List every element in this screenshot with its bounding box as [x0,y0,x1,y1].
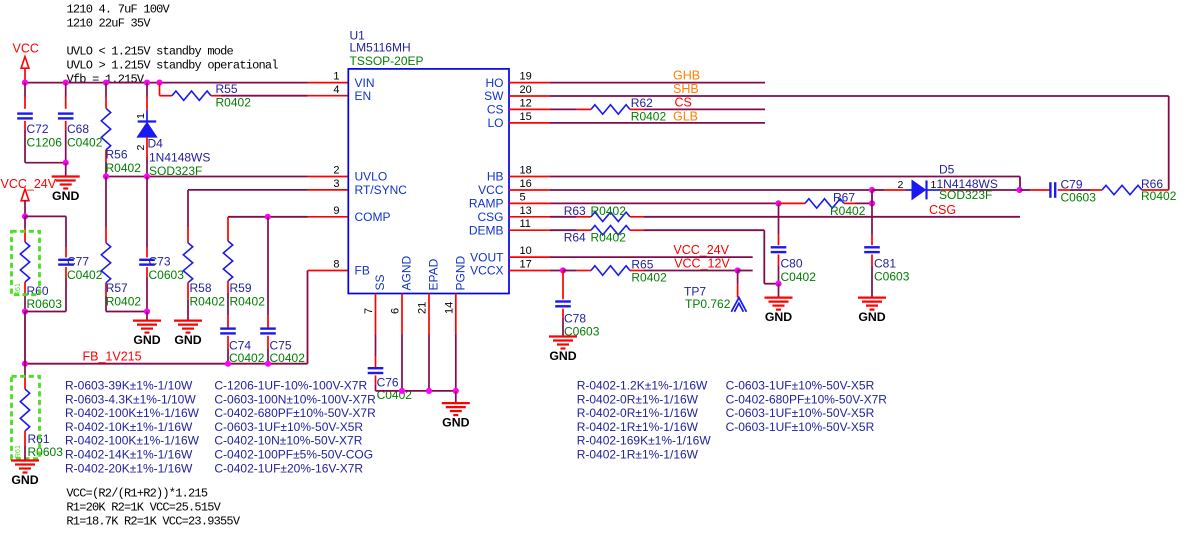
wire AGND/EPAD/PGND bus [376,335,459,395]
wire VIN bus [25,82,348,84]
svg-text:R63: R63 [564,204,586,218]
wire FB net vertical [308,271,349,364]
ground GND below R61 [11,446,39,487]
svg-text:C-0402-100PF±5%-50V-COG: C-0402-100PF±5%-50V-COG [214,448,373,462]
dashed box around R60 [12,231,40,296]
svg-text:2: 2 [333,165,339,177]
svg-text:R0402: R0402 [106,295,142,309]
svg-text:R-0402-100K±1%-1/16W: R-0402-100K±1%-1/16W [65,406,200,420]
svg-text:R58: R58 [190,281,212,295]
svg-text:TP0.762: TP0.762 [685,297,731,311]
svg-text:C77: C77 [67,255,89,269]
op-amp U1 LM5116MH body [348,29,509,294]
capacitor C81 [864,203,909,297]
svg-text:C-0603-100N±10%-100V-X7R: C-0603-100N±10%-100V-X7R [214,392,376,406]
wire VCCX net [550,267,591,273]
svg-text:C80: C80 [781,257,803,271]
svg-text:C0603: C0603 [149,268,185,282]
svg-text:GND: GND [442,416,469,430]
pin 20 SW [484,84,550,103]
svg-text:R-0402-1.2K±1%-1/16W: R-0402-1.2K±1%-1/16W [577,379,708,393]
svg-text:C0402: C0402 [67,136,103,150]
svg-text:2: 2 [135,145,147,151]
svg-text:FB: FB [355,264,370,278]
svg-text:C68: C68 [67,122,89,136]
svg-text:C-1206-1UF-10%-100V-X7R: C-1206-1UF-10%-100V-X7R [214,379,367,393]
svg-text:VCC=(R2/(R1+R2))*1.215: VCC=(R2/(R1+R2))*1.215 [66,487,207,501]
svg-text:DEMB: DEMB [469,223,504,237]
svg-text:C-0402-1UF±20%-16V-X7R: C-0402-1UF±20%-16V-X7R [214,461,363,475]
net label CS [675,96,692,110]
svg-text:R-0402-20K±1%-1/16W: R-0402-20K±1%-1/16W [65,461,193,475]
wire CSG net [550,216,591,218]
svg-text:C-0402-680PF±10%-50V-X7R: C-0402-680PF±10%-50V-X7R [214,406,376,420]
svg-text:CSG: CSG [477,210,503,224]
svg-text:R0402: R0402 [216,96,252,110]
wire RAMP net [550,200,782,206]
svg-text:R59: R59 [230,281,252,295]
wire VOUT net [550,256,753,258]
svg-text:AGND: AGND [400,255,414,290]
svg-text:C1206: C1206 [27,136,63,150]
svg-text:14: 14 [443,302,455,314]
pin 4 EN [333,84,371,103]
svg-text:10: 10 [520,245,532,257]
svg-text:LM5116MH: LM5116MH [350,41,411,55]
capacitor C68 [58,83,103,163]
svg-text:C-0603-1UF±10%-50V-X5R: C-0603-1UF±10%-50V-X5R [214,420,363,434]
svg-text:HB: HB [487,170,504,184]
note UVLO thresholds [67,45,279,87]
pin 2 UVLO [333,165,387,184]
svg-text:R61: R61 [15,283,22,296]
svg-text:VOUT: VOUT [470,250,504,264]
svg-text:6: 6 [390,308,402,314]
resistor R56 [101,83,141,177]
pin 19 HO [486,71,551,90]
pin 13 CSG [477,205,550,224]
svg-text:16: 16 [520,178,532,190]
ground GND below C78 [549,337,577,364]
svg-text:C0402: C0402 [229,351,265,365]
pin 11 DEMB [469,218,550,237]
svg-text:R0402: R0402 [230,295,266,309]
resistor R62 [591,96,765,124]
svg-text:CS: CS [487,103,504,117]
svg-text:20: 20 [520,84,532,96]
svg-text:C81: C81 [874,257,896,271]
wire DEMB to C80 bottom [764,230,778,284]
svg-text:VCC: VCC [478,183,504,197]
svg-text:R0402: R0402 [190,295,226,309]
resistor R58 [183,190,225,309]
wire LO net [550,122,765,124]
svg-text:9: 9 [333,205,339,217]
pin 8 FB [333,259,369,278]
resistor R55 [160,82,349,110]
pin 16 VCC [478,178,550,197]
svg-text:SS: SS [373,274,387,290]
svg-text:R-0402-0R±1%-1/16W: R-0402-0R±1%-1/16W [577,392,699,406]
ground GND below C73 [133,308,161,347]
svg-text:R65: R65 [631,258,653,272]
svg-text:1210 22uF 35V: 1210 22uF 35V [67,17,152,31]
svg-text:PGND: PGND [453,255,467,290]
ground GND below PGND [442,391,470,430]
resistor R67 [779,191,873,218]
net label CSG [929,203,956,217]
svg-text:C-0603-1UF±10%-50V-X5R: C-0603-1UF±10%-50V-X5R [726,379,875,393]
parts list column 1 [65,379,200,476]
svg-text:UVLO: UVLO [355,170,388,184]
svg-text:C78: C78 [564,312,586,326]
pin 9 COMP [333,205,390,224]
capacitor C77 [25,216,103,311]
svg-text:R0402: R0402 [106,161,142,175]
wire UVLO net [103,173,348,179]
svg-text:COMP: COMP [355,210,391,224]
capacitor C74 [220,293,264,365]
wire COMP net [228,214,348,220]
svg-text:VIN: VIN [355,76,375,90]
svg-text:3: 3 [333,178,339,190]
power flag VCC [13,42,39,83]
net label VCC_12V [674,257,730,271]
dashed box around R61 [12,376,40,458]
parts list column 2 [214,379,376,476]
svg-text:R-0402-169K±1%-1/16W: R-0402-169K±1%-1/16W [577,434,712,448]
svg-text:VCC: VCC [13,42,39,56]
ground GND below C68 [52,163,80,203]
svg-text:R56: R56 [106,148,128,162]
svg-text:SW: SW [484,89,504,103]
svg-text:GND: GND [765,310,792,324]
svg-text:R-0603-39K±1%-1/10W: R-0603-39K±1%-1/10W [65,379,193,393]
svg-text:4: 4 [333,84,339,96]
resistor R60 [20,228,62,312]
pin 21 EPAD [417,258,441,334]
pin 17 VCCX [470,259,550,278]
wire CS net [550,108,591,110]
parts list column 4 [726,379,888,434]
svg-text:11: 11 [520,218,531,230]
svg-text:R55: R55 [216,82,238,96]
note VCC formula [66,487,240,529]
svg-text:R0402: R0402 [1141,189,1177,203]
svg-text:LO: LO [487,116,503,130]
svg-text:SHB: SHB [673,82,699,96]
net label SHB [673,82,699,96]
wire HO net [550,82,765,84]
svg-text:12: 12 [520,97,532,109]
parts list column 3 [577,379,712,462]
svg-text:R0402: R0402 [591,231,627,245]
resistor R57 [101,177,147,312]
pin 12 CS [487,97,550,116]
node R60 bottom junction [22,308,28,363]
svg-text:C0402: C0402 [67,268,103,282]
net label GHB [673,68,700,82]
svg-text:R1=20K R2=1K VCC=25.515V: R1=20K R2=1K VCC=25.515V [66,501,221,515]
svg-text:C0402: C0402 [781,270,817,284]
node D5 cathode junction [1016,187,1022,193]
svg-text:R-0402-10K±1%-1/16W: R-0402-10K±1%-1/16W [65,420,193,434]
svg-text:R-0402-1R±1%-1/16W: R-0402-1R±1%-1/16W [577,448,699,462]
svg-text:C0603: C0603 [1061,191,1097,205]
node VCCX TP junction [735,267,753,273]
diode D4 1N4148WS [135,83,210,178]
svg-text:R64: R64 [564,231,586,245]
svg-text:8: 8 [333,259,339,271]
capacitor C79 [1020,178,1097,205]
net label GLB [673,109,698,123]
svg-text:GND: GND [133,333,160,347]
svg-text:R60: R60 [27,284,49,298]
svg-text:7: 7 [363,308,375,314]
ground GND below R58 [174,300,202,347]
svg-text:GND: GND [174,333,201,347]
svg-text:C72: C72 [27,122,49,136]
svg-text:CS: CS [675,96,692,110]
note top capacitor sizes [67,3,171,31]
svg-text:GND: GND [52,189,79,203]
resistor R59 [223,217,265,309]
svg-text:EPAD: EPAD [427,258,441,290]
svg-text:R0402: R0402 [591,204,627,218]
pin 5 RAMP [469,191,550,210]
pin 6 AGND [390,255,414,334]
capacitor C73 [139,177,184,312]
wire SHB net [550,96,1169,190]
svg-text:C-0402-10N±10%-50V-X7R: C-0402-10N±10%-50V-X7R [214,434,362,448]
svg-text:21: 21 [417,302,429,314]
svg-text:VCC_24V: VCC_24V [1,177,57,191]
svg-text:R-0402-1R±1%-1/16W: R-0402-1R±1%-1/16W [577,420,699,434]
svg-text:VCCX: VCCX [470,264,503,278]
wire C72-C68 tie [25,160,69,166]
svg-text:R-0603-4.3K±1%-1/10W: R-0603-4.3K±1%-1/10W [65,392,196,406]
power flag VCC_24V [1,177,57,216]
svg-text:R61: R61 [15,445,22,458]
resistor R63 [564,204,1020,222]
pin 7 SS [363,274,387,334]
svg-text:R-0402-100K±1%-1/16W: R-0402-100K±1%-1/16W [65,434,200,448]
svg-text:VCC_24V: VCC_24V [673,243,729,257]
capacitor C78 [555,271,599,339]
svg-text:D5: D5 [939,162,955,176]
svg-text:R-0402-0R±1%-1/16W: R-0402-0R±1%-1/16W [577,406,699,420]
diode D5 1N4148WS [884,162,1020,202]
svg-text:1: 1 [135,113,147,119]
resistor R66 [1090,177,1177,203]
svg-text:UVLO > 1.215V standby operatio: UVLO > 1.215V standby operational [67,59,279,73]
pin 3 RT/SYNC [333,178,407,197]
svg-text:HO: HO [486,76,504,90]
svg-text:15: 15 [520,111,532,123]
svg-text:SOD323F: SOD323F [939,188,992,202]
svg-text:RAMP: RAMP [469,197,504,211]
svg-text:2: 2 [898,179,904,191]
capacitor C72 [17,83,62,163]
svg-text:RT/SYNC: RT/SYNC [355,183,408,197]
wire DEMB net [550,229,591,231]
svg-text:19: 19 [520,71,532,83]
svg-text:D4: D4 [148,137,164,151]
svg-text:UVLO < 1.215V standby mode: UVLO < 1.215V standby mode [67,45,234,59]
svg-text:C73: C73 [149,255,171,269]
svg-text:R62: R62 [631,96,653,110]
svg-text:R0402: R0402 [631,271,667,285]
pin 10 VOUT [470,245,550,264]
resistor R65 [591,258,738,285]
net label FB_1V215 [83,349,142,363]
wire VCC pin net [550,187,884,193]
svg-text:VCC_12V: VCC_12V [674,257,730,271]
capacitor C80 [771,203,816,284]
wire FB_1V215 bus [22,361,308,367]
svg-text:1N4148WS: 1N4148WS [149,151,210,165]
pin 1 VIN [333,71,374,90]
svg-text:R1=18.7K R2=1K VCC=23.9355V: R1=18.7K R2=1K VCC=23.9355V [66,515,240,529]
svg-text:GHB: GHB [673,68,700,82]
pin 18 HB [487,165,550,184]
svg-text:1210 4. 7uF 100V: 1210 4. 7uF 100V [67,3,171,17]
svg-text:R57: R57 [106,281,128,295]
svg-text:GND: GND [549,349,576,363]
svg-text:TSSOP-20EP: TSSOP-20EP [350,54,424,68]
svg-text:1: 1 [333,71,339,83]
svg-text:R0603: R0603 [27,297,63,311]
svg-text:C-0402-680PF±10%-50V-X7R: C-0402-680PF±10%-50V-X7R [726,392,888,406]
ground GND below C80 [765,281,793,325]
node VIN junctions [22,80,163,86]
svg-text:5: 5 [520,191,526,203]
svg-text:R0402: R0402 [631,110,667,124]
pin 15 LO [487,111,550,130]
svg-text:18: 18 [520,165,532,177]
wire R67 to VCC riser [869,190,875,207]
resistor R64 [564,226,765,245]
svg-text:C79: C79 [1061,178,1083,192]
svg-text:GND: GND [11,473,38,487]
svg-text:13: 13 [520,205,532,217]
wire VCC_24V rail [22,213,28,228]
pin 14 PGND [443,255,467,334]
ground GND below C81 [858,298,886,325]
svg-text:R0402: R0402 [830,204,866,218]
net label VCC_24V [673,243,729,257]
svg-text:C0603: C0603 [874,270,910,284]
resistor R61 [20,364,63,459]
svg-text:FB_1V215: FB_1V215 [83,349,142,363]
svg-text:CSG: CSG [929,203,956,217]
wire RT/SYNC net [188,189,348,191]
svg-text:R67: R67 [833,191,855,205]
svg-text:17: 17 [520,259,532,271]
svg-text:R0603: R0603 [28,445,64,459]
svg-text:C0402: C0402 [270,351,306,365]
capacitor C76 [368,335,413,403]
svg-text:C-0603-1UF±10%-50V-X5R: C-0603-1UF±10%-50V-X5R [726,420,875,434]
wire HB net [550,177,1020,190]
svg-text:C-0603-1UF±10%-50V-X5R: C-0603-1UF±10%-50V-X5R [726,406,875,420]
svg-text:GND: GND [858,310,885,324]
capacitor C75 [260,217,305,365]
test point TP7 [684,271,747,312]
svg-text:EN: EN [355,89,372,103]
svg-text:R-0402-14K±1%-1/16W: R-0402-14K±1%-1/16W [65,448,193,462]
svg-text:GLB: GLB [673,109,698,123]
